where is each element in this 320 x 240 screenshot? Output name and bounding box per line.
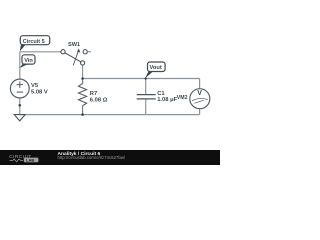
switch SW1 <box>61 50 65 54</box>
flag Vin <box>20 64 28 68</box>
svg-text:R7: R7 <box>90 91 97 97</box>
svg-text:LAB: LAB <box>26 157 34 162</box>
svg-text:5.08 V: 5.08 V <box>31 90 48 96</box>
svg-text:1.08 μF: 1.08 μF <box>157 97 177 103</box>
wire C1 top stem <box>145 79 147 95</box>
node junction at R7 bottom <box>81 113 84 116</box>
node junction at R7 top <box>81 77 84 80</box>
resistor R7 <box>79 83 87 105</box>
wire C1 bottom stem <box>145 99 147 115</box>
svg-text:Vout: Vout <box>150 65 162 71</box>
wire VM2 bottom <box>199 109 201 115</box>
svg-text:V: V <box>197 90 202 97</box>
wire VM2 top drop <box>199 79 201 89</box>
svg-text:SW1: SW1 <box>68 42 80 48</box>
footer bar <box>0 150 220 165</box>
ground <box>19 104 22 107</box>
svg-text:VM2: VM2 <box>177 95 188 101</box>
wire bottom rail <box>20 114 200 116</box>
wire V5 bottom to ground <box>19 98 21 115</box>
wire top horizontal (node Vin) <box>20 51 61 53</box>
svg-text:Circuit 5: Circuit 5 <box>23 39 45 45</box>
svg-text:C1: C1 <box>157 91 165 97</box>
wire R7 bottom stem <box>82 106 84 115</box>
svg-text:Vin: Vin <box>24 58 33 64</box>
voltage source V5 <box>10 79 29 98</box>
wire switch common down <box>82 65 84 78</box>
svg-text:http://circuitlab.com/c/8z74c6: http://circuitlab.com/c/8z74c627bw/ <box>58 155 126 160</box>
node junction at C1 top <box>145 77 147 79</box>
capacitor C1 <box>137 94 156 96</box>
footer logo wire zigzag <box>10 159 24 162</box>
svg-text:6.08 Ω: 6.08 Ω <box>90 97 108 103</box>
voltmeter VM2 <box>190 89 210 109</box>
wire left vertical <box>19 52 21 79</box>
flag Circuit 5 <box>20 45 26 52</box>
switch actuator arrow <box>73 51 78 66</box>
wire mid rail (node Vout) <box>83 78 200 80</box>
flag Vout <box>145 72 153 79</box>
svg-text:V5: V5 <box>31 83 39 89</box>
switch lever <box>65 53 81 62</box>
wire R7 top stem <box>82 79 84 84</box>
footer logo LAB box <box>24 158 39 163</box>
